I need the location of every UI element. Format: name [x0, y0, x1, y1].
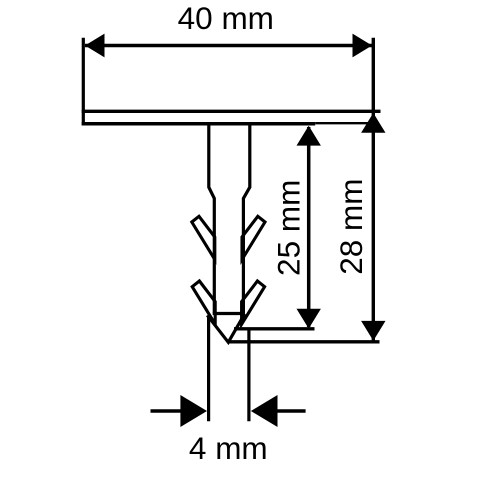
anchor tip cone — [207, 314, 244, 343]
wing lower-right — [242, 281, 265, 324]
wing upper-right — [242, 216, 265, 259]
shaft bottom cap — [213, 312, 245, 315]
svg-text:28 mm: 28 mm — [333, 178, 369, 274]
28mm top arrowhead — [361, 113, 385, 133]
4mm right extension line — [247, 329, 250, 421]
svg-text:25 mm: 25 mm — [271, 180, 307, 276]
wing lower-left — [192, 281, 215, 324]
anchor shaft left profile — [209, 126, 215, 314]
plate bottom line — [82, 110, 381, 113]
28mm bottom extension line — [228, 340, 379, 343]
4mm right arrow tail — [273, 409, 306, 413]
40mm right arrowhead — [353, 34, 373, 58]
wing upper-left — [192, 216, 215, 259]
4mm left arrowhead — [180, 395, 207, 427]
4mm right arrowhead — [251, 395, 278, 427]
40mm left arrowhead — [85, 34, 105, 58]
28mm bottom arrowhead — [361, 321, 385, 341]
25mm bottom arrowhead — [297, 309, 321, 329]
25mm top arrowhead — [297, 126, 321, 146]
svg-text:4 mm: 4 mm — [189, 430, 268, 466]
anchor shaft right profile — [243, 126, 249, 314]
25mm dimension line — [307, 127, 311, 327]
thin extension of plate lower line — [315, 122, 371, 124]
plate lower line / 25mm top extension — [82, 122, 316, 126]
plate left edge / 40mm extension line — [82, 38, 85, 126]
plate right edge / 28mm dimension line — [372, 38, 375, 342]
4mm left arrow tail — [151, 409, 186, 413]
4mm left extension line — [207, 316, 210, 421]
40mm dimension line — [85, 44, 372, 48]
svg-text:40 mm: 40 mm — [178, 0, 274, 36]
25mm bottom extension line — [234, 327, 315, 330]
